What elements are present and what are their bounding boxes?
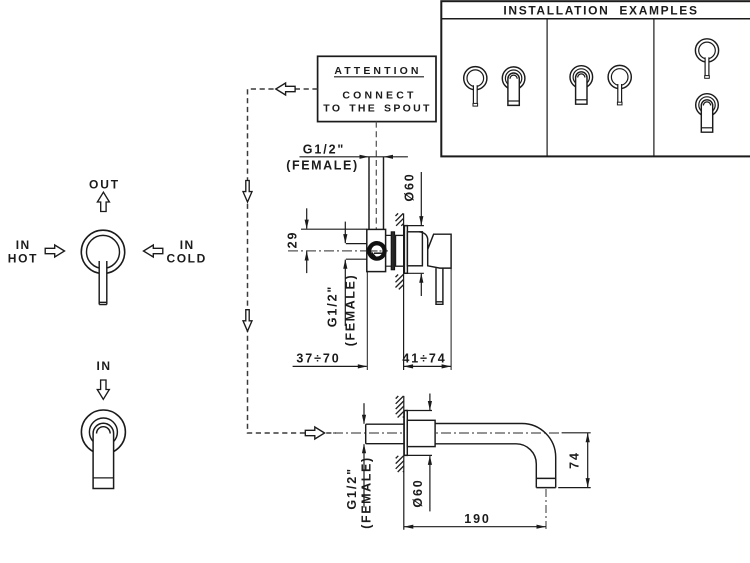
41÷74 dimension bbox=[404, 365, 452, 367]
example 2 spout symbol bbox=[570, 66, 593, 105]
svg-text:OUT: OUT bbox=[89, 177, 120, 191]
side port lines bbox=[346, 244, 371, 260]
svg-text:G1/2": G1/2" bbox=[345, 467, 359, 510]
svg-text:190: 190 bbox=[464, 512, 491, 526]
G1/2 side dimension arrows bbox=[344, 222, 346, 326]
svg-text:TO THE SPOUT: TO THE SPOUT bbox=[323, 103, 431, 115]
wall hatch lower (spout) bbox=[396, 456, 404, 472]
Ø60 dimension (spout) bbox=[405, 394, 432, 512]
svg-text:G1/2": G1/2" bbox=[303, 143, 346, 157]
cartridge neck inner edge bbox=[395, 235, 397, 266]
handle collar bbox=[407, 232, 422, 266]
valve body bbox=[367, 229, 386, 271]
ring slot line bbox=[374, 252, 382, 254]
hollow arrow down IN bbox=[97, 380, 109, 399]
example 3 mixer symbol bbox=[695, 39, 718, 79]
hollow arrow right IN HOT bbox=[45, 245, 64, 257]
extension lines for bottom dims bbox=[367, 268, 451, 370]
hollow arrow left IN COLD bbox=[144, 245, 163, 257]
svg-text:41÷74: 41÷74 bbox=[402, 352, 446, 366]
spout trim plate bbox=[404, 411, 407, 456]
190 dimension bbox=[404, 526, 546, 528]
installation examples box bbox=[441, 1, 750, 156]
trim plate (valve, Ø60) bbox=[404, 226, 407, 274]
G1/2 dimension (spout) bbox=[363, 403, 365, 507]
29 dimension bbox=[301, 208, 367, 273]
attention box bbox=[318, 56, 436, 121]
in-wall neck bbox=[386, 235, 392, 266]
Ø60 dimension (valve) bbox=[405, 172, 424, 296]
example 3 spout symbol bbox=[696, 94, 719, 133]
svg-text:(FEMALE): (FEMALE) bbox=[344, 274, 358, 347]
example 2 mixer symbol bbox=[608, 65, 631, 105]
svg-text:INSTALLATION EXAMPLES: INSTALLATION EXAMPLES bbox=[503, 4, 698, 18]
svg-text:74: 74 bbox=[567, 451, 581, 469]
valve horizontal centerline bbox=[288, 250, 388, 252]
74 dimension bbox=[558, 433, 591, 488]
spout tube bbox=[435, 424, 556, 488]
svg-text:CONNECT: CONNECT bbox=[342, 90, 416, 102]
ring keyway wedge bbox=[372, 252, 377, 258]
attention underline bbox=[334, 76, 424, 78]
svg-text:IN: IN bbox=[16, 238, 31, 252]
svg-text:HOT: HOT bbox=[8, 252, 38, 266]
hollow arrow up OUT bbox=[97, 192, 109, 211]
valve: top pipe centerline bbox=[375, 122, 377, 232]
mixer front view bbox=[81, 230, 124, 304]
spout inlet pipe bbox=[366, 424, 405, 444]
dashed connect-to-spout path bbox=[248, 89, 337, 433]
svg-text:(FEMALE): (FEMALE) bbox=[359, 456, 373, 529]
flange ring bbox=[391, 232, 394, 270]
example 1 mixer symbol bbox=[464, 67, 487, 107]
svg-text:Ø60: Ø60 bbox=[403, 172, 417, 201]
spout centerline bbox=[333, 432, 560, 434]
wall hatch lower (valve) bbox=[396, 275, 404, 290]
svg-text:IN: IN bbox=[180, 238, 195, 252]
hollow arrow right at spout inlet bbox=[305, 427, 324, 439]
svg-text:29: 29 bbox=[286, 231, 300, 249]
cartridge neck bbox=[394, 235, 404, 266]
centerline across ring bbox=[372, 250, 383, 252]
svg-text:IN: IN bbox=[97, 359, 112, 373]
hollow arrow down 2 on dashed path bbox=[243, 310, 252, 332]
spout root bbox=[407, 420, 435, 446]
outlet axis bbox=[545, 489, 547, 530]
wall face line (spout) bbox=[403, 396, 405, 530]
svg-text:(FEMALE): (FEMALE) bbox=[286, 158, 359, 172]
svg-text:COLD: COLD bbox=[166, 252, 206, 266]
wall hatch upper (spout) bbox=[396, 396, 404, 418]
handle lever bbox=[436, 268, 443, 304]
vertical inlet pipe bbox=[369, 157, 384, 229]
top pipe dimension line bbox=[300, 156, 408, 158]
svg-text:Ø60: Ø60 bbox=[411, 478, 425, 507]
svg-text:ATTENTION: ATTENTION bbox=[334, 65, 421, 77]
svg-text:G1/2": G1/2" bbox=[326, 285, 340, 328]
valve inlet dark ring bbox=[369, 243, 384, 258]
hollow arrow left on dashed path bbox=[276, 83, 295, 95]
handle head bbox=[428, 234, 451, 268]
wall hatch upper (valve) bbox=[396, 213, 404, 225]
example 1 spout symbol bbox=[502, 67, 525, 106]
svg-text:37÷70: 37÷70 bbox=[296, 352, 340, 366]
wall face line (valve) bbox=[403, 213, 405, 370]
37÷70 dimension bbox=[293, 365, 367, 367]
spout front view bbox=[81, 410, 125, 489]
hollow arrow down 1 on dashed path bbox=[243, 181, 252, 203]
